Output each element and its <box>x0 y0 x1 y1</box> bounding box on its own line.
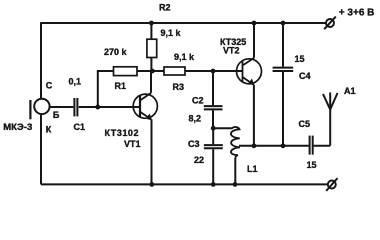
svg-text:R1: R1 <box>115 81 127 91</box>
svg-text:VT2: VT2 <box>223 46 240 56</box>
svg-text:C4: C4 <box>299 71 311 81</box>
svg-text:15: 15 <box>307 160 317 170</box>
svg-text:К: К <box>46 125 52 135</box>
svg-text:9,1 k: 9,1 k <box>174 52 195 62</box>
svg-text:C5: C5 <box>299 119 311 129</box>
svg-text:С: С <box>46 81 53 91</box>
svg-text:0,1: 0,1 <box>69 77 82 87</box>
svg-text:8,2: 8,2 <box>189 114 202 124</box>
svg-text:+ 3+6 В: + 3+6 В <box>339 8 375 19</box>
svg-text:Б: Б <box>53 110 60 120</box>
svg-text:МКЭ-3: МКЭ-3 <box>3 122 32 133</box>
svg-text:R3: R3 <box>173 82 185 92</box>
svg-text:C2: C2 <box>192 96 204 106</box>
svg-text:22: 22 <box>194 155 204 165</box>
svg-text:С1: С1 <box>74 122 86 132</box>
svg-text:VT1: VT1 <box>124 139 141 149</box>
svg-text:15: 15 <box>295 54 305 64</box>
svg-text:C3: C3 <box>188 139 200 149</box>
svg-text:270 k: 270 k <box>104 47 128 57</box>
svg-text:R2: R2 <box>159 3 171 13</box>
svg-text:L1: L1 <box>247 164 258 174</box>
svg-text:9,1 k: 9,1 k <box>161 28 182 38</box>
svg-text:A1: A1 <box>344 86 356 96</box>
svg-text:КТ3102: КТ3102 <box>105 128 140 138</box>
